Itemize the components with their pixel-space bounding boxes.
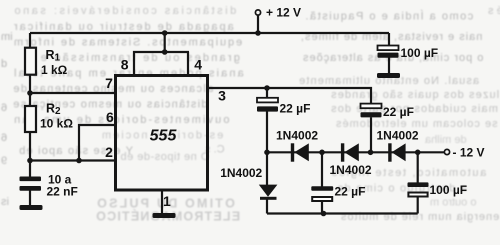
- svg-text:100 µF: 100 µF: [430, 183, 468, 197]
- wire pin 3 output: [208, 88, 372, 104]
- svg-text:mais cuidados por parte dos: mais cuidados por parte dos: [330, 103, 498, 115]
- wire C3 22uF vertical: [370, 117, 372, 152]
- svg-text:+ 12 V: + 12 V: [266, 6, 301, 20]
- svg-text:im: im: [1, 31, 13, 43]
- wire D4 branch down: [266, 152, 268, 213]
- wire pin 7: [30, 92, 116, 94]
- svg-text:O ne tipos-de eb: O ne tipos-de eb: [120, 151, 209, 163]
- diode D4 1N4002 vertical: [259, 185, 278, 200]
- circuit layer: [30, 15, 445, 213]
- diode D2 1N4002: [341, 143, 359, 161]
- svg-text:is: is: [1, 196, 9, 208]
- svg-text:2: 2: [105, 144, 113, 160]
- svg-text:10 kΩ: 10 kΩ: [40, 117, 73, 131]
- wire left rail to R1: [29, 33, 31, 48]
- svg-text:22 µF: 22 µF: [280, 102, 311, 116]
- svg-text:4: 4: [194, 56, 202, 72]
- wire C5 100uF branch: [417, 152, 419, 213]
- wire pin 1 to ground: [161, 190, 163, 214]
- svg-text:1N4002: 1N4002: [220, 166, 262, 180]
- svg-text:555: 555: [150, 128, 178, 145]
- node R1/R2/pin7: [27, 90, 33, 96]
- svg-text:22 µF: 22 µF: [335, 185, 366, 199]
- node rail/pins8-4: [162, 30, 168, 36]
- svg-text:distâncias consideráveis: sano: distâncias consideráveis: sano: [12, 5, 236, 17]
- svg-text:22 nF: 22 nF: [47, 185, 78, 199]
- diode D1 1N4002: [291, 143, 309, 161]
- wire C4 branch: [321, 152, 323, 213]
- resistor R2: [25, 106, 36, 132]
- capacitor C6 100uF top-right: [378, 46, 399, 58]
- node pin6/pin2 tie: [76, 158, 82, 164]
- terminal -12V: [444, 149, 449, 154]
- svg-text:6: 6: [1, 102, 7, 114]
- svg-text:d: d: [1, 58, 7, 70]
- ground below pin 1: [153, 213, 176, 218]
- wire bottom negative rail: [267, 212, 418, 214]
- svg-text:1N4002: 1N4002: [377, 129, 419, 143]
- svg-text:9: 9: [1, 155, 7, 167]
- svg-text:22 µF: 22 µF: [383, 105, 414, 119]
- svg-text:1N4002: 1N4002: [330, 163, 372, 177]
- svg-text:o outro m: o outro m: [430, 197, 476, 209]
- wire pin 6 L-shape: [79, 125, 116, 161]
- svg-text:- 12 V: - 12 V: [453, 145, 485, 159]
- svg-text:7: 7: [105, 75, 113, 91]
- node +12V rail: [255, 30, 261, 36]
- node bottom rail/C4: [321, 211, 327, 217]
- node D3/C5/output: [415, 150, 421, 156]
- svg-text:de milha: de milha: [424, 134, 466, 146]
- ground below C1: [20, 205, 43, 210]
- wire pin 2: [30, 159, 116, 161]
- capacitor C4 22uF bottom: [311, 186, 333, 201]
- ground below C6: [377, 73, 400, 78]
- svg-text:é s: é s: [488, 5, 500, 17]
- svg-text:6: 6: [1, 132, 7, 144]
- node pin3/C2: [264, 85, 270, 91]
- svg-text:apagada de destruir ou danific: apagada de destruir ou danificar: [12, 21, 234, 33]
- wire diode row: [267, 151, 445, 153]
- svg-text:100 µF: 100 µF: [401, 46, 439, 60]
- node D1/D2/C4: [319, 150, 325, 156]
- node pins8-4 connector: [162, 49, 168, 55]
- capacitor C3 22uF: [361, 104, 382, 118]
- wire +12V terminal stub: [257, 15, 259, 33]
- wire C1 to ground: [29, 191, 31, 206]
- capacitor C1 10-22nF plates: [20, 177, 42, 191]
- wire R2 to pin2 junction: [29, 132, 31, 177]
- svg-text:1: 1: [163, 193, 171, 209]
- node D2/D3/C3: [368, 150, 374, 156]
- svg-text:luzes dos quais são grandes: luzes dos quais são grandes: [330, 89, 499, 101]
- wire top 100uF to rail and ground: [388, 33, 390, 74]
- svg-text:6: 6: [106, 109, 114, 125]
- svg-text:3: 3: [218, 88, 226, 104]
- svg-text:1 kΩ: 1 kΩ: [41, 63, 68, 77]
- wire R1 to pin7 junction: [29, 75, 31, 107]
- wire pins 8/4 connector: [133, 33, 189, 76]
- svg-text:como a Índia e o Paquistã.: como a Índia e o Paquistã.: [304, 10, 473, 23]
- svg-text:8: 8: [121, 56, 129, 72]
- wire top +12V rail: [30, 32, 389, 34]
- terminal +12V: [255, 10, 260, 15]
- wire C2 22uF vertical: [266, 88, 268, 152]
- svg-text:equipamentos. Sistemas de info: equipamentos. Sistemas de inform: [12, 37, 242, 49]
- svg-text:1N4002: 1N4002: [276, 129, 318, 143]
- node C2/D1/D4: [264, 150, 270, 156]
- diode D3 1N4002: [388, 143, 405, 161]
- node R2/C1/pin2: [27, 158, 33, 164]
- capacitor C5 100uF bottom-right: [408, 182, 429, 196]
- capacitor C2 22uF: [257, 98, 278, 112]
- resistor R1: [25, 48, 36, 75]
- op-amp/timer IC U1 555 box: [116, 76, 208, 191]
